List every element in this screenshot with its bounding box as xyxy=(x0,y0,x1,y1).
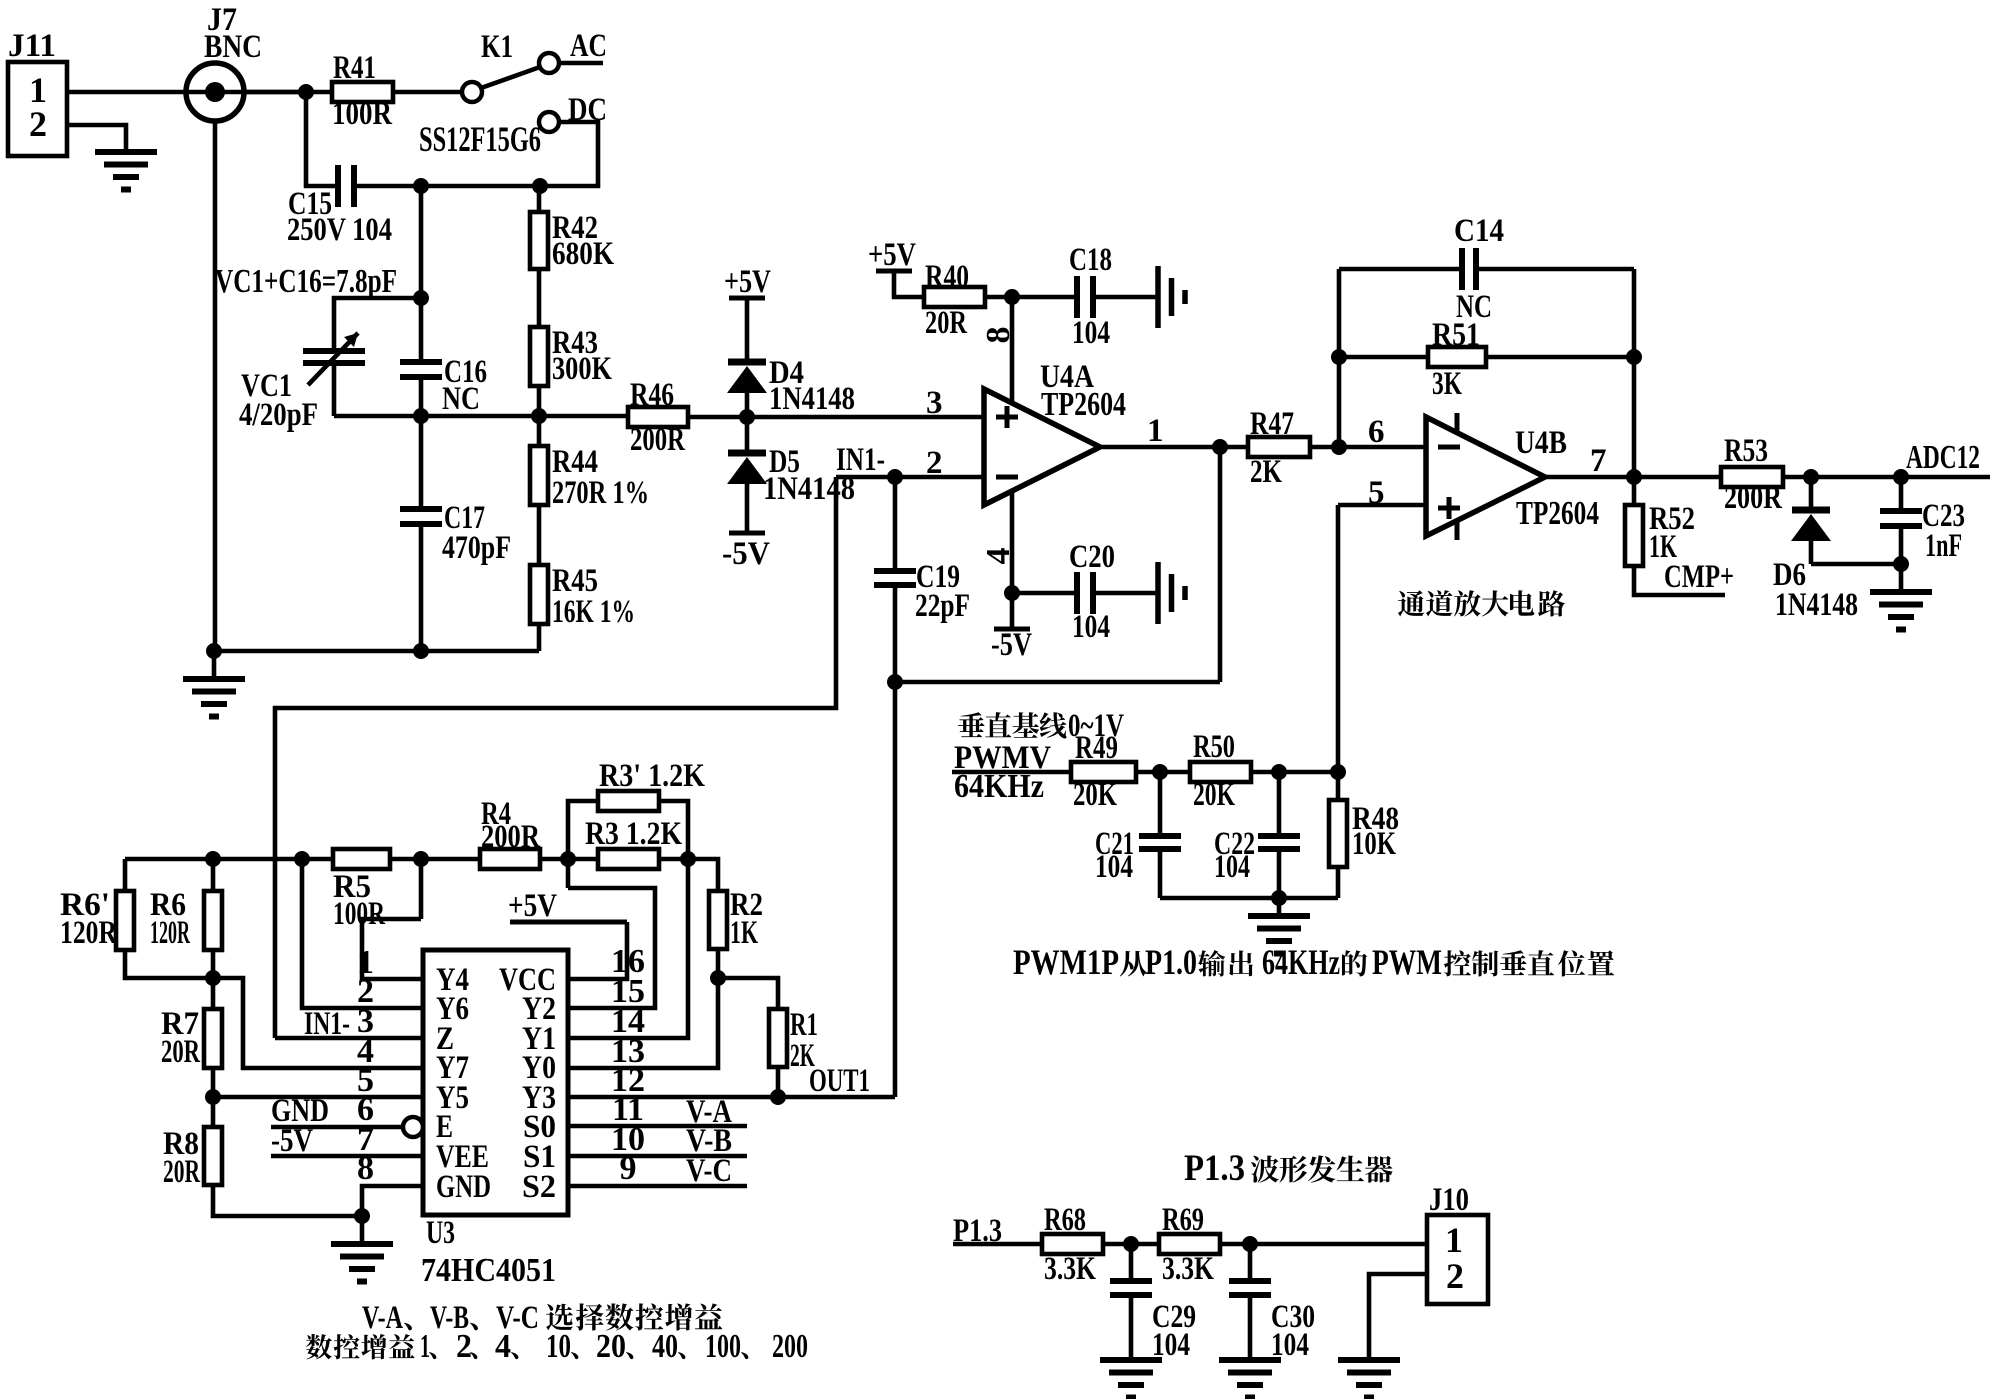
svg-text:3.3K: 3.3K xyxy=(1162,1251,1214,1287)
U4B pin5 wire xyxy=(1338,503,1426,508)
svg-text:R69: R69 xyxy=(1162,1202,1204,1238)
IN1- long wire to U3 xyxy=(275,477,836,1038)
resistor R4 xyxy=(480,849,540,869)
junction at C30 xyxy=(1242,1236,1258,1252)
wire R42 to R43 xyxy=(537,269,542,327)
ground at C30 xyxy=(1219,1357,1281,1363)
wire R45 to bottom rail xyxy=(537,624,542,651)
svg-text:P1.3: P1.3 xyxy=(1184,1148,1245,1189)
svg-text:R3' 1.2K: R3' 1.2K xyxy=(599,758,705,794)
svg-text:BNC: BNC xyxy=(204,29,262,65)
svg-text:300K: 300K xyxy=(552,351,612,387)
wire R50 to R48 node xyxy=(1251,770,1338,775)
svg-text:C20: C20 xyxy=(1069,539,1115,575)
wire R41 to K1 xyxy=(393,90,463,95)
svg-text:AC: AC xyxy=(570,28,607,64)
U3 pin6 enable wire xyxy=(403,1117,423,1137)
wire R69 to J10 xyxy=(1220,1242,1427,1247)
trimmer capacitor VC1 xyxy=(334,298,421,351)
resistor R3 xyxy=(598,849,659,869)
svg-text:10K: 10K xyxy=(1352,826,1396,862)
junction at C29 xyxy=(1123,1236,1139,1252)
resistor R40 xyxy=(894,271,924,297)
svg-text:J10: J10 xyxy=(1429,1182,1469,1218)
svg-text:22pF: 22pF xyxy=(915,588,970,624)
U3 pin12 OUT1 wire xyxy=(568,1095,895,1100)
right ground at C18 xyxy=(1155,266,1161,328)
svg-text:1K: 1K xyxy=(730,915,758,951)
svg-text:R49: R49 xyxy=(1075,730,1118,766)
junction C19 bottom xyxy=(887,674,903,690)
feedback right vertical wire xyxy=(1632,269,1637,477)
switch K1 xyxy=(462,82,482,102)
U4A pin 4 wire xyxy=(1010,491,1015,629)
junction U4A pin8 xyxy=(1004,289,1020,305)
junction U4A pin4 xyxy=(1004,585,1020,601)
capacitor C16 xyxy=(400,359,442,365)
svg-text:TP2604: TP2604 xyxy=(1516,495,1599,532)
svg-text:200: 200 xyxy=(772,1328,808,1365)
ground at J10 xyxy=(1338,1357,1400,1363)
svg-text:+5V: +5V xyxy=(508,888,557,924)
junction bus at R3 left xyxy=(560,851,576,867)
svg-text:2: 2 xyxy=(456,1328,472,1365)
capacitor C15 xyxy=(335,165,341,207)
label channel amplifier caption xyxy=(1398,590,1425,616)
svg-text:PWM: PWM xyxy=(1372,942,1442,982)
svg-text:1N4148: 1N4148 xyxy=(1775,587,1858,623)
junction R7 bottom xyxy=(205,1089,221,1105)
svg-text:4: 4 xyxy=(980,548,1017,565)
svg-text:100: 100 xyxy=(705,1328,741,1365)
gain bus wire xyxy=(125,857,688,862)
svg-text:104: 104 xyxy=(1072,315,1110,351)
junction bus at R5 left xyxy=(294,851,310,867)
capacitor C21 xyxy=(1158,772,1163,836)
resistor R6' xyxy=(123,859,128,891)
svg-text:R3 1.2K: R3 1.2K xyxy=(585,816,682,852)
junction at C23 xyxy=(1893,469,1909,485)
svg-text:1nF: 1nF xyxy=(1925,528,1962,564)
U3 pin13 wire to R2 bottom xyxy=(568,978,718,1068)
svg-text:4/20pF: 4/20pF xyxy=(239,397,318,433)
capacitor C29 xyxy=(1129,1244,1134,1281)
svg-text:R53: R53 xyxy=(1724,433,1768,469)
wire R47 to U4B pin6 xyxy=(1310,445,1426,450)
svg-text:2: 2 xyxy=(926,445,943,481)
junction C23 bottom xyxy=(1893,556,1909,572)
svg-text:5: 5 xyxy=(1368,475,1385,511)
junction at clamp diodes xyxy=(739,409,755,425)
junction R51 right xyxy=(1626,349,1642,365)
U4A output pin1 wire xyxy=(1100,445,1248,450)
U3 pin11 wire V-A xyxy=(568,1124,747,1129)
wire U4A pin2 xyxy=(836,475,984,480)
svg-text:C18: C18 xyxy=(1069,242,1112,278)
wire node to C15 xyxy=(306,92,338,186)
svg-text:IN1-: IN1- xyxy=(836,442,885,478)
capacitor C23 xyxy=(1899,477,1904,511)
resistor R3' xyxy=(568,801,598,859)
svg-text:R50: R50 xyxy=(1193,729,1235,765)
svg-text:GND: GND xyxy=(436,1169,491,1205)
capacitor C20 xyxy=(1012,591,1077,596)
BNC ground stem wire xyxy=(213,121,218,651)
capacitor C16 branch wire upper xyxy=(419,186,424,362)
J10 pin2 wire to ground xyxy=(1369,1274,1427,1360)
U3 pin10 wire V-B xyxy=(568,1154,747,1159)
feedback wire C19 to U4A output xyxy=(895,680,1220,685)
PWMV wire xyxy=(952,770,1071,775)
junction bottom rail at BNC ground xyxy=(206,643,222,659)
resistor R44 xyxy=(537,416,542,446)
svg-text:200R: 200R xyxy=(1724,480,1783,516)
svg-text:VC1+C16=7.8pF: VC1+C16=7.8pF xyxy=(215,263,397,300)
wire BNC to node xyxy=(244,90,332,95)
junction at R48 xyxy=(1330,764,1346,780)
junction U4B output xyxy=(1626,469,1642,485)
resistor R6 xyxy=(211,859,216,891)
ground at bottom rail xyxy=(212,651,217,679)
resistor R8 xyxy=(211,1097,216,1127)
PWM bottom wire xyxy=(1160,896,1338,901)
svg-text:V-A: V-A xyxy=(362,1300,403,1336)
svg-text:64KHz: 64KHz xyxy=(1262,942,1340,982)
ground at C29 xyxy=(1100,1357,1162,1363)
wire R44 to R45 xyxy=(537,505,542,565)
junction R51 left xyxy=(1331,349,1347,365)
wire R53 to ADC12 xyxy=(1783,475,1990,480)
capacitor C30 xyxy=(1248,1244,1253,1281)
svg-text:PWM1P: PWM1P xyxy=(1013,942,1119,982)
svg-text:270R 1%: 270R 1% xyxy=(552,475,649,511)
junction feedback at pin6 xyxy=(1331,439,1347,455)
svg-text:16K 1%: 16K 1% xyxy=(552,594,635,630)
wire R52 to CMP+ stub xyxy=(1634,566,1725,595)
junction VC1 top xyxy=(413,290,429,306)
connector J10 xyxy=(1427,1215,1488,1304)
svg-text:CMP+: CMP+ xyxy=(1664,559,1734,595)
svg-text:104: 104 xyxy=(1095,849,1133,885)
svg-text:40: 40 xyxy=(652,1328,678,1365)
svg-text:K1: K1 xyxy=(481,29,513,65)
resistor R48 xyxy=(1336,772,1341,800)
resistor R49 xyxy=(1071,762,1136,782)
junction at BNC output xyxy=(298,84,314,100)
svg-text:74HC4051: 74HC4051 xyxy=(421,1252,556,1289)
capacitor C22 xyxy=(1277,772,1282,836)
svg-text:U3: U3 xyxy=(426,1215,455,1251)
svg-text:1: 1 xyxy=(1147,413,1164,449)
U3 pin7 VEE wire xyxy=(271,1154,423,1159)
svg-text:1: 1 xyxy=(420,1328,430,1365)
svg-text:3: 3 xyxy=(926,385,943,421)
svg-text:-5V: -5V xyxy=(991,627,1032,663)
pin5 vertical wire to PWM node xyxy=(1336,505,1341,772)
wire node to U3 pin4 xyxy=(213,978,423,1068)
diode D4 xyxy=(745,298,750,362)
svg-text:J11: J11 xyxy=(8,28,56,64)
svg-text:200R: 200R xyxy=(630,422,686,458)
svg-text:U4B: U4B xyxy=(1515,425,1567,461)
svg-text:R51: R51 xyxy=(1432,317,1480,353)
resistor R5 xyxy=(333,849,390,869)
OUT1 vertical wire xyxy=(893,682,898,1097)
svg-text:250V 104: 250V 104 xyxy=(287,212,392,248)
svg-text:R41: R41 xyxy=(333,50,376,86)
wire C18 to ground xyxy=(1093,295,1158,300)
wire C20 to ground xyxy=(1093,591,1158,596)
svg-text:470pF: 470pF xyxy=(442,530,511,566)
capacitor C17 xyxy=(400,506,442,512)
wire D6 to C23 bottom xyxy=(1811,562,1901,567)
BNC connector J7 xyxy=(186,63,244,121)
junction bus at R6 xyxy=(205,851,221,867)
svg-text:100R: 100R xyxy=(333,896,386,932)
svg-text:SS12F15G6: SS12F15G6 xyxy=(419,119,541,159)
svg-text:TP2604: TP2604 xyxy=(1041,386,1126,423)
junction bottom rail at C17 xyxy=(413,643,429,659)
resistor R53 xyxy=(1721,467,1783,487)
junction IN1- at C19 xyxy=(887,469,903,485)
resistor R41 xyxy=(332,82,393,102)
U3 pin2 wire to bus xyxy=(302,859,423,1008)
svg-text:3K: 3K xyxy=(1432,366,1462,402)
svg-text:ADC12: ADC12 xyxy=(1906,439,1980,476)
capacitor C17 branch wire xyxy=(419,416,424,509)
P1.3 wire xyxy=(953,1242,1042,1247)
svg-text:20R: 20R xyxy=(161,1034,201,1070)
svg-text:R47: R47 xyxy=(1250,406,1294,442)
ground at J11 pin2 xyxy=(95,149,157,155)
wire R68 to R69 xyxy=(1103,1242,1159,1247)
svg-text:20R: 20R xyxy=(163,1154,201,1190)
junction C15 rail at R42 branch xyxy=(532,178,548,194)
U3 pin14 wire to R3 right node xyxy=(568,859,688,1038)
-5V symbol for D5 xyxy=(729,531,765,536)
junction mid rail at R44 xyxy=(531,408,547,424)
wire C16 to mid rail xyxy=(419,377,424,416)
svg-text:104: 104 xyxy=(1072,609,1110,645)
svg-text:104: 104 xyxy=(1214,849,1250,885)
label vertical baseline caption xyxy=(958,712,985,737)
svg-text:20K: 20K xyxy=(1073,777,1117,813)
wire R49 to R50 xyxy=(1136,770,1190,775)
svg-text:R46: R46 xyxy=(630,377,674,413)
junction mid rail at C16 xyxy=(413,408,429,424)
svg-text:120R: 120R xyxy=(150,915,191,951)
capacitor C18 xyxy=(1074,276,1080,318)
U4B output wire xyxy=(1545,475,1721,480)
svg-text:200R: 200R xyxy=(481,819,541,855)
svg-text:-5V: -5V xyxy=(722,536,770,572)
feedback left vertical wire xyxy=(1337,269,1342,447)
U3 pin5 wire xyxy=(213,1095,423,1100)
svg-text:4: 4 xyxy=(495,1328,511,1365)
junction bus at R4 left xyxy=(413,851,429,867)
U3 pin1 wire to bus xyxy=(362,919,423,979)
U3 pin3 wire xyxy=(275,1036,423,1041)
svg-text:R40: R40 xyxy=(925,259,969,295)
svg-text:2: 2 xyxy=(29,104,47,144)
resistor R46 xyxy=(628,407,688,427)
op-amp U4B xyxy=(1426,417,1545,536)
U3 pin8 GND wire xyxy=(362,1186,423,1216)
wire R46 to U4A pin3 xyxy=(688,415,984,420)
junction R1 bottom on OUT1 xyxy=(770,1089,786,1105)
mid rail wire xyxy=(334,414,628,419)
svg-text:V-C: V-C xyxy=(686,1153,732,1189)
wire J11 pin2 to ground xyxy=(67,125,126,152)
junction R2 bottom xyxy=(710,970,726,986)
svg-text:20: 20 xyxy=(596,1328,626,1365)
resistor R51 xyxy=(1339,355,1428,360)
ground at C23 xyxy=(1899,564,1904,592)
wire R40 to C18 xyxy=(985,295,1077,300)
svg-text:10: 10 xyxy=(546,1328,571,1365)
svg-text:20R: 20R xyxy=(925,305,968,341)
svg-text:2: 2 xyxy=(1446,1256,1464,1296)
resistor R7 xyxy=(211,978,216,1009)
svg-text:9: 9 xyxy=(620,1150,637,1187)
svg-text:1: 1 xyxy=(1445,1220,1463,1260)
U3 pin9 wire V-C xyxy=(568,1184,747,1189)
junction PWM ground xyxy=(1271,890,1287,906)
svg-text:OUT1: OUT1 xyxy=(809,1063,870,1099)
wire C17 to bottom rail xyxy=(419,524,424,651)
resistor R69 xyxy=(1159,1234,1220,1254)
svg-text:P1.0: P1.0 xyxy=(1145,942,1197,982)
resistor R47 xyxy=(1248,437,1310,457)
svg-text:6: 6 xyxy=(1368,414,1385,450)
svg-text:NC: NC xyxy=(442,381,480,417)
resistor R45 xyxy=(530,565,548,624)
capacitor C14 xyxy=(1339,267,1462,272)
op-amp U4A xyxy=(984,389,1100,505)
capacitor C19 xyxy=(893,477,898,571)
junction R6 bottom xyxy=(205,970,221,986)
svg-text:680K: 680K xyxy=(552,236,614,272)
-5V symbol for U4A xyxy=(994,627,1030,632)
resistor R50 xyxy=(1190,762,1251,782)
svg-text:+5V: +5V xyxy=(868,237,916,273)
svg-text:100R: 100R xyxy=(332,96,393,132)
resistor R43 xyxy=(530,327,548,386)
junction at D6 xyxy=(1803,469,1819,485)
junction at C21 xyxy=(1152,764,1168,780)
svg-text:8: 8 xyxy=(980,327,1017,344)
svg-text:20K: 20K xyxy=(1193,777,1235,813)
ground at U3 xyxy=(360,1216,365,1244)
junction U4A output xyxy=(1212,439,1228,455)
resistor R1 xyxy=(718,978,778,1009)
wire AC terminal xyxy=(559,61,603,66)
svg-text:120R: 120R xyxy=(60,915,118,951)
ground at PWM filter xyxy=(1277,898,1282,916)
svg-text:2K: 2K xyxy=(1250,454,1282,490)
U3 pin16 wire to +5V xyxy=(510,920,627,925)
U4A pin 8 wire xyxy=(1010,297,1015,404)
connector J11 xyxy=(8,62,67,156)
diode D6 xyxy=(1809,477,1814,510)
resistor R52 xyxy=(1632,477,1637,505)
svg-text:C14: C14 xyxy=(1454,213,1504,249)
junction R8 ground node xyxy=(354,1208,370,1224)
junction bus at R3 right xyxy=(680,851,696,867)
IC U3 74HC4051 xyxy=(423,950,568,1215)
svg-text:7: 7 xyxy=(1590,443,1607,479)
junction C15 rail at C16 branch xyxy=(413,178,429,194)
resistor R2 xyxy=(688,859,718,891)
U3 pin15 wire to R3 node xyxy=(568,888,655,1008)
wire R43 to mid rail xyxy=(537,386,542,416)
svg-text:1N4148: 1N4148 xyxy=(769,381,855,417)
wire DC terminal to C15 rail xyxy=(354,122,598,186)
right ground at C20 xyxy=(1155,562,1161,624)
junction at C22 xyxy=(1271,764,1287,780)
wire J11 pin1 to BNC xyxy=(67,90,306,95)
svg-text:S2: S2 xyxy=(522,1169,556,1205)
caption gain values xyxy=(306,1334,332,1359)
svg-text:+5V: +5V xyxy=(724,264,771,300)
diode D5 xyxy=(745,417,750,453)
svg-text:R68: R68 xyxy=(1044,1202,1086,1238)
bottom rail wire xyxy=(214,649,539,654)
resistor R68 xyxy=(1042,1234,1103,1254)
svg-text:3.3K: 3.3K xyxy=(1044,1251,1096,1287)
resistor R42 xyxy=(537,186,542,212)
